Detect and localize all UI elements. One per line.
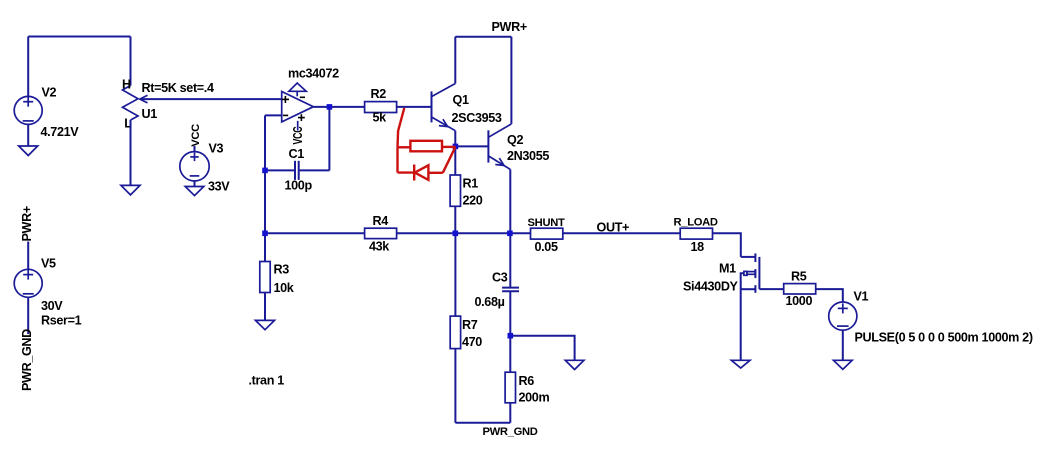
ground under V1: [834, 360, 853, 369]
op-amp top power stub: [296, 92, 298, 97]
svg-text:PWR_GND: PWR_GND: [20, 329, 34, 391]
op-amp plus input mark: [282, 98, 289, 100]
svg-text:mc34072: mc34072: [288, 67, 339, 81]
wire V3 bottom stub: [194, 181, 196, 187]
svg-text:M1: M1: [719, 262, 736, 276]
svg-text:R2: R2: [371, 87, 387, 101]
junction node at R4 left: [262, 231, 268, 237]
svg-text:VCC: VCC: [291, 126, 305, 144]
wire R_LOAD to M1 corner: [713, 233, 741, 257]
svg-text:PULSE(0 5 0 0 0 500m 1000m 2): PULSE(0 5 0 0 0 500m 1000m 2): [855, 330, 1033, 344]
resistor R4: [365, 228, 397, 238]
svg-text:470: 470: [462, 335, 482, 349]
wire M1 source to ground: [740, 289, 742, 360]
wire C3 bottom: [509, 291, 511, 336]
svg-text:5k: 5k: [373, 111, 388, 125]
svg-text:10k: 10k: [274, 281, 295, 295]
ground under U1: [121, 185, 140, 195]
svg-text:R_LOAD: R_LOAD: [674, 217, 718, 229]
wire R3 top: [264, 233, 266, 261]
svg-text:0.05: 0.05: [535, 240, 558, 254]
wire R3 bottom: [264, 293, 266, 321]
wire Q2 emitter down: [509, 169, 511, 233]
Q2 emitter arrowhead: [495, 158, 504, 165]
wire R7 top: [454, 233, 456, 316]
svg-text:C3: C3: [492, 271, 508, 285]
op-amp bottom power stub: [297, 121, 299, 131]
wire V2 bottom: [27, 124, 29, 146]
svg-text:R4: R4: [373, 214, 389, 228]
wire V2 top vertical: [27, 37, 29, 97]
svg-text:1000: 1000: [786, 294, 813, 308]
M1 gate small box: [744, 271, 747, 275]
svg-text:V2: V2: [42, 86, 57, 100]
Q1 emitter arrowhead: [439, 119, 448, 126]
svg-text:18: 18: [691, 240, 705, 254]
capacitor C1: [294, 161, 296, 180]
svg-text:Si4430DY: Si4430DY: [683, 280, 739, 294]
potentiometer U1 zigzag: [123, 86, 139, 121]
svg-text:R6: R6: [519, 374, 535, 388]
M1 gate bar: [754, 269, 756, 278]
M1 channel line: [758, 257, 760, 289]
wire R6 top: [509, 336, 511, 373]
svg-text:Rt=5K set=.4: Rt=5K set=.4: [142, 81, 214, 95]
wire bottom rail: [455, 422, 510, 424]
svg-text:VCC: VCC: [190, 124, 202, 147]
wire R5 to V1: [816, 289, 843, 302]
voltage source V3: [180, 152, 209, 181]
svg-text:4.721V: 4.721V: [41, 125, 80, 139]
wire OUT+ segment: [563, 232, 680, 234]
op-amp U2 mc34072 triangle: [282, 92, 314, 122]
red resistor: [410, 141, 442, 152]
resistor R_LOAD: [680, 228, 712, 239]
red wire diagonal to node: [443, 147, 455, 173]
wire Q2 base: [455, 145, 488, 147]
svg-text:43k: 43k: [369, 240, 390, 254]
wire C3 top: [509, 233, 511, 287]
wire gnd branch horizontal: [510, 336, 574, 361]
Q1 emitter diagonal: [432, 117, 456, 131]
svg-text:220: 220: [463, 194, 483, 208]
svg-text:R1: R1: [463, 177, 479, 191]
M1 source tap: [741, 288, 756, 290]
MOSFET M1 drain tap: [741, 256, 756, 258]
Q1 collector diagonal: [432, 84, 456, 97]
resistor R2: [365, 102, 397, 113]
Q2 collector diagonal: [488, 124, 511, 137]
wiper arrow wire to op-amp: [141, 98, 282, 100]
wire M1 to R5: [759, 288, 783, 290]
op-amp bottom power plus mark: [298, 117, 305, 119]
wire V3 top stub: [194, 146, 196, 152]
svg-text:R3: R3: [274, 263, 290, 277]
svg-text:Q2: Q2: [507, 133, 523, 147]
transistor Q2 base bar: [487, 130, 489, 162]
op-amp minus input mark: [283, 114, 288, 116]
svg-text:Q1: Q1: [453, 93, 469, 107]
svg-text:2N3055: 2N3055: [507, 149, 549, 163]
op-amp power arrow (top): [289, 83, 306, 91]
resistor R7: [450, 316, 460, 349]
svg-text:200m: 200m: [519, 391, 550, 405]
red resistor stub right: [442, 146, 456, 148]
wire Q1 collector up: [454, 37, 456, 84]
op-amp top power minus mark: [300, 96, 305, 98]
svg-text:R7: R7: [462, 318, 478, 332]
svg-text:PWR_GND: PWR_GND: [483, 426, 538, 438]
wire U1 top vertical: [130, 37, 132, 86]
ground under V2: [19, 146, 38, 156]
svg-text:R5: R5: [791, 270, 807, 284]
wire Q1 emitter to R1: [454, 146, 456, 175]
wire R6 bottom: [509, 403, 511, 423]
svg-text:Rser=1: Rser=1: [41, 314, 82, 328]
wire main rail mid segment: [397, 232, 531, 234]
capacitor C3: [502, 287, 519, 289]
svg-text:0.68µ: 0.68µ: [475, 295, 505, 309]
voltage source V5: [14, 269, 42, 297]
wire U1 bottom: [130, 120, 132, 185]
voltage source V1: [829, 302, 857, 330]
svg-text:C1: C1: [289, 147, 305, 161]
ground right of C3: [565, 360, 584, 369]
junction node at Q1 emitter: [453, 144, 459, 150]
wire R2 to Q1 base: [397, 106, 432, 108]
wire Q1 emitter down: [454, 131, 456, 147]
wire PWR+ top rail: [455, 36, 511, 38]
svg-text:2SC3953: 2SC3953: [452, 111, 502, 125]
wire R7 bottom: [454, 349, 456, 423]
wiper arrowhead: [140, 95, 148, 103]
svg-text:U1: U1: [142, 107, 158, 121]
red wire from Q1 base node diagonal: [398, 108, 405, 147]
transistor Q1 base bar: [431, 91, 433, 122]
junction node at C3 bottom: [508, 333, 514, 339]
wire C1 left: [265, 169, 295, 171]
M1 gate poly rect: [747, 272, 755, 275]
red wire bottom to diode: [398, 171, 415, 173]
resistor R1: [450, 175, 460, 206]
wire op-amp minus input: [265, 114, 282, 116]
svg-text:V1: V1: [854, 290, 869, 304]
junction node at op-amp output: [327, 104, 333, 110]
resistor R5: [784, 284, 816, 294]
wire R1 bottom: [454, 206, 456, 233]
voltage source V2: [14, 96, 42, 124]
svg-text:PWR+: PWR+: [492, 20, 527, 34]
svg-text:30V: 30V: [41, 299, 63, 313]
red wire left vertical: [396, 147, 398, 172]
wire op-amp output: [313, 106, 364, 108]
svg-text:V5: V5: [41, 257, 56, 271]
svg-text:100p: 100p: [285, 179, 313, 193]
wire feedback vertical: [264, 115, 266, 233]
wire output to C1 vertical: [328, 107, 330, 170]
svg-text:33V: 33V: [208, 180, 230, 194]
svg-text:PWR+: PWR+: [20, 206, 34, 241]
M1 gate hook wire: [741, 273, 744, 289]
ground under V3: [185, 187, 204, 196]
junction node at C1 left: [262, 168, 268, 174]
resistor R6: [505, 372, 515, 403]
red wire diode anode: [428, 172, 442, 174]
Q2 emitter diagonal: [488, 156, 510, 170]
ground under R3: [256, 320, 275, 329]
wire C1 right: [299, 169, 330, 171]
wire main rail left segment: [265, 232, 365, 234]
resistor R3: [260, 262, 270, 293]
svg-text:SHUNT: SHUNT: [528, 217, 565, 229]
svg-text:OUT+: OUT+: [597, 221, 630, 235]
resistor SHUNT: [531, 228, 563, 239]
wire V5 bottom: [27, 297, 29, 334]
ground under M1: [731, 360, 750, 368]
red diode cathode bar: [413, 165, 415, 181]
svg-text:.tran 1: .tran 1: [249, 374, 285, 388]
junction node at SHUNT rail: [507, 231, 513, 237]
red resistor stub left: [398, 146, 411, 148]
wire V1 bottom: [842, 330, 844, 360]
red diode triangle: [415, 165, 429, 180]
wire top-left horizontal rail: [28, 36, 130, 38]
svg-text:V3: V3: [209, 142, 224, 156]
wire V5 top: [27, 242, 29, 270]
svg-text:H: H: [122, 78, 131, 92]
wire Q2 collector down: [510, 37, 512, 124]
junction node at R1 rail: [453, 231, 459, 237]
